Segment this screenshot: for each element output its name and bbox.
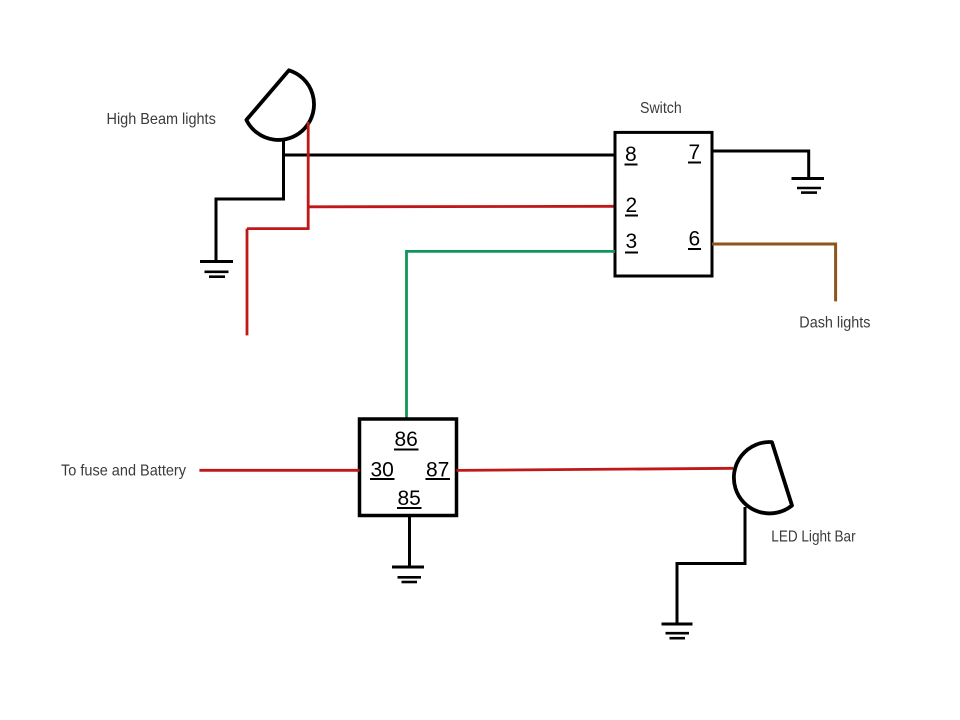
ground GND2: [792, 179, 825, 193]
wire red jog left: [247, 227, 310, 230]
wire pin 7 to ground (black): [712, 151, 809, 178]
svg-text:LED Light Bar: LED Light Bar: [771, 528, 856, 545]
ground GND4: [392, 567, 424, 582]
wire down to ground (black vertical): [215, 199, 218, 262]
wire red relay pin 87 to LED lamp: [457, 468, 734, 470]
svg-text:7: 7: [689, 141, 701, 164]
ground GND1: [200, 262, 233, 277]
svg-text:3: 3: [626, 230, 638, 253]
svg-text:86: 86: [395, 428, 418, 451]
wire LED lamp to ground (black): [677, 507, 745, 624]
wire jog left (black horizontal): [215, 198, 286, 201]
wire red to pin 2: [308, 205, 615, 208]
wire red battery to relay pin 30: [199, 469, 359, 472]
wire lamp to pin 8 (black horizontal): [284, 154, 616, 157]
ground GND3: [662, 624, 693, 638]
svg-text:Switch: Switch: [640, 100, 682, 117]
lamp LED Light Bar: [734, 442, 792, 513]
wire lamp down (black vertical): [282, 138, 285, 201]
svg-text:8: 8: [625, 143, 637, 166]
svg-text:85: 85: [398, 487, 421, 510]
svg-text:6: 6: [689, 228, 701, 251]
switch box: [615, 132, 712, 276]
svg-text:To fuse and Battery: To fuse and Battery: [61, 462, 186, 479]
wire pin 6 dash lights (brown): [712, 244, 836, 301]
relay box: [360, 419, 457, 516]
lamp High Beam lights: [246, 70, 314, 140]
svg-text:High Beam lights: High Beam lights: [107, 111, 216, 128]
wire relay pin 85 to ground (black): [408, 516, 411, 568]
wire red from lamp down: [307, 122, 310, 230]
wire green pin 3 to relay: [407, 251, 616, 420]
wire red stub down: [246, 229, 249, 336]
svg-text:2: 2: [626, 194, 638, 217]
svg-text:Dash lights: Dash lights: [799, 315, 870, 332]
